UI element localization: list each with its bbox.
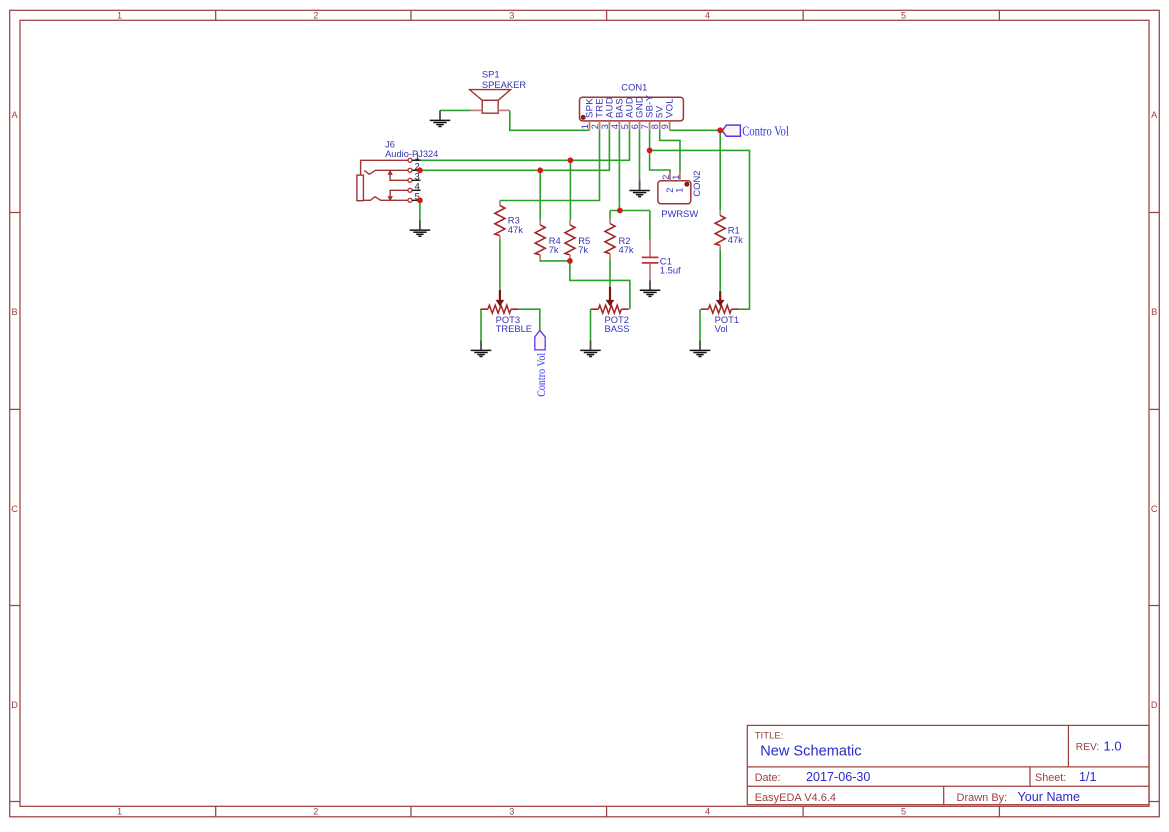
svg-text:9: 9: [660, 124, 670, 129]
svg-text:C: C: [11, 504, 18, 514]
svg-text:TITLE:: TITLE:: [755, 730, 784, 741]
svg-text:J6: J6: [385, 139, 395, 149]
svg-text:A: A: [1151, 110, 1158, 120]
svg-text:1: 1: [117, 10, 122, 20]
svg-text:3: 3: [600, 124, 610, 129]
svg-text:Contro Vol: Contro Vol: [536, 353, 548, 397]
svg-text:5: 5: [901, 10, 906, 20]
svg-text:4: 4: [705, 806, 710, 816]
svg-text:A: A: [12, 110, 19, 120]
svg-text:Contro Vol: Contro Vol: [742, 124, 789, 139]
svg-text:1.0: 1.0: [1104, 739, 1122, 754]
svg-text:8: 8: [650, 124, 660, 129]
svg-text:1/1: 1/1: [1079, 770, 1097, 784]
svg-text:SPEAKER: SPEAKER: [482, 79, 527, 90]
svg-text:D: D: [11, 700, 18, 710]
svg-text:2: 2: [661, 175, 671, 180]
svg-text:5: 5: [620, 124, 630, 129]
svg-text:2: 2: [313, 10, 318, 20]
svg-text:Vol: Vol: [715, 323, 728, 334]
svg-text:CON1: CON1: [621, 81, 647, 92]
svg-text:VOL: VOL: [665, 98, 676, 118]
svg-text:7k: 7k: [578, 244, 588, 255]
svg-text:2: 2: [590, 124, 600, 129]
svg-text:EasyEDA V4.6.4: EasyEDA V4.6.4: [755, 792, 836, 804]
svg-text:PWRSW: PWRSW: [661, 208, 698, 219]
svg-text:B: B: [1151, 307, 1157, 317]
svg-text:47k: 47k: [619, 244, 634, 255]
svg-text:Your Name: Your Name: [1018, 790, 1081, 804]
svg-text:7k: 7k: [549, 244, 559, 255]
svg-text:B: B: [12, 307, 18, 317]
svg-text:Drawn By:: Drawn By:: [957, 792, 1008, 804]
svg-text:BASS: BASS: [605, 323, 630, 334]
svg-text:5: 5: [901, 806, 906, 816]
svg-text:6: 6: [630, 124, 640, 129]
svg-text:TREBLE: TREBLE: [496, 323, 532, 334]
svg-text:7: 7: [640, 124, 650, 129]
svg-text:SP1: SP1: [482, 69, 500, 80]
svg-text:Sheet:: Sheet:: [1035, 772, 1066, 784]
svg-text:2: 2: [313, 806, 318, 816]
svg-text:New Schematic: New Schematic: [760, 744, 861, 760]
svg-text:D: D: [1151, 700, 1158, 710]
svg-text:1: 1: [674, 188, 684, 193]
svg-text:47k: 47k: [508, 224, 523, 235]
svg-text:1: 1: [671, 175, 681, 180]
svg-text:2: 2: [665, 188, 675, 193]
svg-text:47k: 47k: [728, 234, 743, 245]
svg-text:1.5uf: 1.5uf: [660, 265, 681, 276]
svg-text:C: C: [1151, 504, 1158, 514]
svg-text:4: 4: [415, 181, 420, 191]
svg-text:Audio-PJ324: Audio-PJ324: [385, 149, 438, 159]
svg-text:3: 3: [509, 10, 514, 20]
svg-text:Date:: Date:: [755, 772, 781, 784]
svg-text:4: 4: [705, 10, 710, 20]
svg-text:3: 3: [509, 806, 514, 816]
svg-text:1: 1: [580, 124, 590, 129]
svg-text:1: 1: [117, 806, 122, 816]
svg-text:REV:: REV:: [1076, 742, 1099, 753]
svg-text:4: 4: [610, 124, 620, 129]
svg-text:2017-06-30: 2017-06-30: [806, 770, 870, 784]
svg-text:CON2: CON2: [691, 171, 702, 197]
